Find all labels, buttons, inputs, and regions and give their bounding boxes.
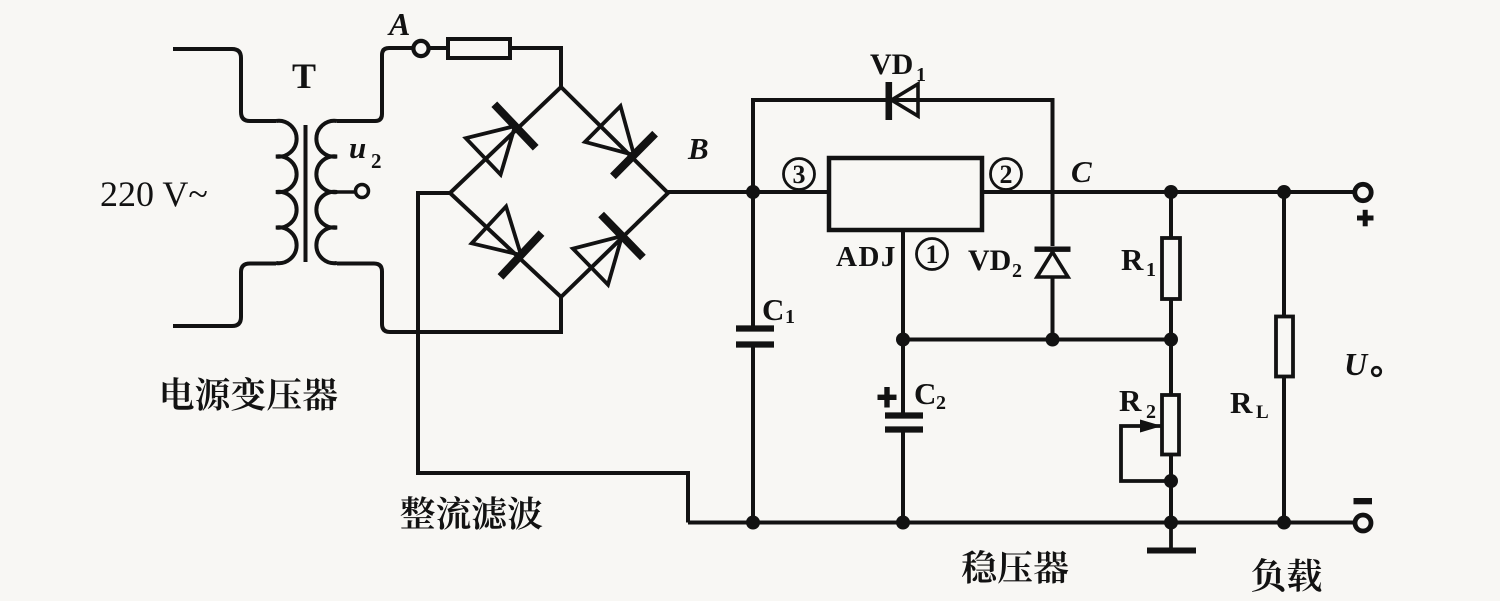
svg-text:VD: VD xyxy=(968,244,1011,277)
svg-text:R: R xyxy=(1230,385,1253,420)
pin circle 1 xyxy=(917,239,948,270)
label 稳压器 xyxy=(962,550,1068,584)
bridge diode D2 (top-right) xyxy=(585,106,634,155)
wire: regulator pin2 to node C and output xyxy=(980,190,1362,194)
capacitor C1 plates xyxy=(736,325,774,331)
junction R1 bottom / ADJ rail right xyxy=(1164,333,1178,347)
junction R2 wiper xyxy=(1164,474,1178,488)
diode VD1 xyxy=(892,84,919,116)
wire: bridge right vertex to regulator pin 3 xyxy=(668,190,829,194)
bridge diode D1 (top-left) xyxy=(466,126,515,175)
bridge rectifier diamond wires xyxy=(450,87,668,297)
svg-text:R: R xyxy=(1121,242,1144,277)
svg-text:R: R xyxy=(1119,383,1142,418)
svg-text:3: 3 xyxy=(793,160,806,189)
svg-text:1: 1 xyxy=(916,64,926,86)
svg-text:u: u xyxy=(349,130,366,165)
label 负载 xyxy=(1252,558,1321,592)
svg-text:A: A xyxy=(387,6,410,42)
transformer T: core xyxy=(304,125,308,262)
regulator CW317 box xyxy=(829,158,982,230)
svg-text:ADJ: ADJ xyxy=(836,241,897,273)
junction node C / R1 top xyxy=(1164,185,1178,199)
svg-text:2: 2 xyxy=(1012,260,1022,282)
label 电源变压器 xyxy=(163,377,338,411)
wire: VD1 branch (B up, across, down to C) xyxy=(753,100,1053,246)
wire: secondary top to node A xyxy=(337,48,413,121)
resistor R2 box xyxy=(1162,395,1179,455)
wire: secondary bottom to bridge bottom vertex xyxy=(337,264,561,333)
svg-text:1: 1 xyxy=(1146,259,1156,281)
secondary tap wire u2 xyxy=(337,190,356,194)
wire: 220V input top lead xyxy=(173,49,276,121)
bridge diode D4 (bottom-right) xyxy=(573,236,622,285)
svg-text:T: T xyxy=(292,56,316,96)
wire: ADJ rail xyxy=(903,338,1171,342)
wire: 220V input bottom lead xyxy=(173,264,276,327)
terminal circle u2 tap xyxy=(356,185,369,198)
label - output xyxy=(1354,498,1373,504)
label + of C2 xyxy=(878,395,897,400)
resistor R2 leads xyxy=(1169,340,1173,396)
svg-text:1: 1 xyxy=(926,240,939,269)
transformer T: primary winding xyxy=(276,121,297,263)
junction RL top xyxy=(1277,185,1291,199)
resistor RL leads xyxy=(1282,192,1286,317)
transformer T: secondary winding xyxy=(316,121,337,263)
svg-text:2: 2 xyxy=(371,149,382,173)
bridge diode D3 (bottom-left) xyxy=(472,207,521,256)
label + output xyxy=(1357,216,1374,221)
wire: bridge left vertex to ground rail (jog) xyxy=(418,193,688,523)
svg-text:B: B xyxy=(687,131,709,166)
resistor RL box xyxy=(1276,317,1293,377)
capacitor C1 leads xyxy=(751,192,755,327)
svg-text:1: 1 xyxy=(785,306,795,328)
junction ADJ rail left xyxy=(896,333,910,347)
svg-text:C: C xyxy=(914,376,936,411)
svg-text:C: C xyxy=(1071,154,1092,189)
R2 wiper arrowhead xyxy=(1140,420,1162,433)
diode VD2 xyxy=(1037,252,1068,277)
R2 wiper wire xyxy=(1121,426,1171,481)
wire: bottom rail xyxy=(688,521,1362,525)
svg-text:2: 2 xyxy=(936,392,946,414)
pin circle 2 xyxy=(991,159,1022,190)
junction VD2 bottom xyxy=(1046,333,1060,347)
svg-text:C: C xyxy=(762,292,784,327)
terminal circle output + xyxy=(1355,184,1371,200)
junction C2 bottom xyxy=(896,516,910,530)
capacitor C2 plates xyxy=(885,412,923,418)
label 整流滤波 xyxy=(401,496,543,530)
fuse FU box xyxy=(448,39,510,58)
terminal circle output - xyxy=(1355,515,1371,531)
junction C1 bottom xyxy=(746,516,760,530)
svg-text:220 V~: 220 V~ xyxy=(100,174,208,214)
svg-text:VD: VD xyxy=(870,48,913,81)
ground symbol xyxy=(1169,523,1173,549)
svg-text:2: 2 xyxy=(1000,160,1013,189)
pin circle 3 xyxy=(784,159,815,190)
svg-text:L: L xyxy=(1256,402,1269,423)
svg-text:2: 2 xyxy=(1146,401,1156,423)
resistor R1 leads xyxy=(1169,192,1173,238)
capacitor C2 leads xyxy=(901,340,905,415)
wire: fuse to bridge top xyxy=(510,48,561,87)
terminal circle A xyxy=(413,41,428,56)
junction RL bottom xyxy=(1277,516,1291,530)
wire: A to fuse xyxy=(429,46,448,50)
svg-text:U: U xyxy=(1344,346,1369,382)
junction R2 bottom rail xyxy=(1164,516,1178,530)
wire: ADJ pin down xyxy=(901,230,905,340)
junction node B xyxy=(746,185,760,199)
resistor R1 box xyxy=(1162,238,1180,299)
